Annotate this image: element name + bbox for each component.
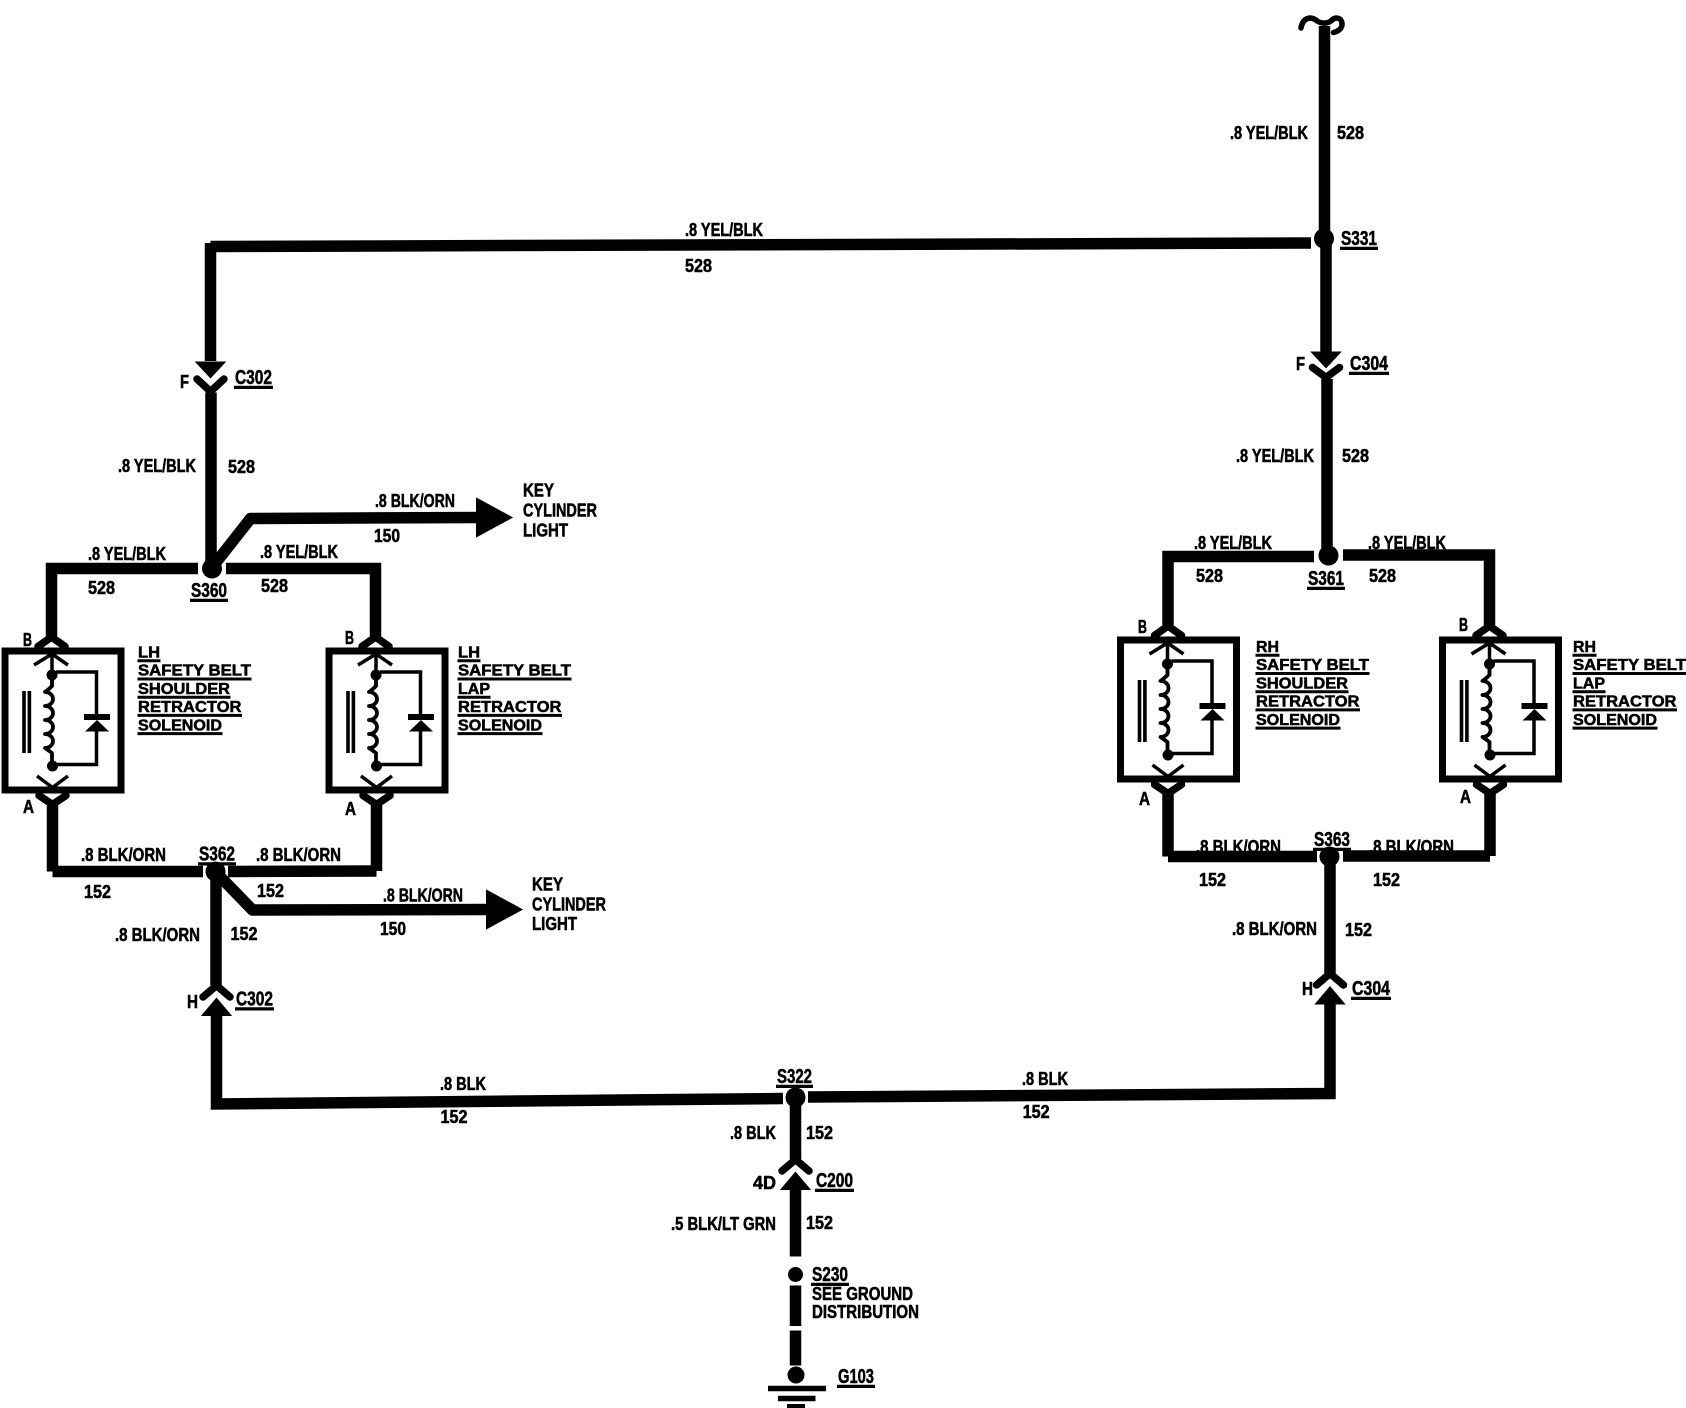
svg-text:SAFETY BELT: SAFETY BELT bbox=[1573, 657, 1686, 674]
splice S361 junction dot bbox=[1319, 546, 1339, 566]
svg-text:S362: S362 bbox=[199, 844, 235, 866]
solenoid LH lap retractor core (two parallel lines) bbox=[348, 691, 353, 753]
svg-text:RETRACTOR: RETRACTOR bbox=[458, 699, 562, 716]
svg-text:C302: C302 bbox=[235, 367, 272, 389]
svg-text:.8 YEL/BLK: .8 YEL/BLK bbox=[1230, 123, 1308, 143]
svg-text:528: 528 bbox=[685, 256, 712, 276]
svg-text:RH: RH bbox=[1573, 639, 1596, 656]
wire 528 drop to connector C302 bbox=[205, 243, 217, 361]
solenoid LH lap retractor solenoid coil winding bbox=[369, 675, 377, 766]
svg-text:.8 BLK/ORN: .8 BLK/ORN bbox=[383, 886, 463, 906]
RH shoulder solenoid pin A wire-end chevron bbox=[1155, 785, 1182, 794]
svg-text:S322: S322 bbox=[777, 1066, 812, 1088]
svg-text:A: A bbox=[23, 797, 34, 817]
svg-text:A: A bbox=[1460, 787, 1471, 807]
svg-text:528: 528 bbox=[1369, 566, 1396, 586]
wire .8 BLK/ORN 152 from S363 down to C304 bbox=[1324, 861, 1336, 973]
svg-text:B: B bbox=[345, 628, 354, 648]
solenoid RH shoulder retractor clamp diode branch wiring bbox=[1172, 661, 1213, 754]
svg-text:528: 528 bbox=[228, 457, 255, 477]
svg-text:SAFETY BELT: SAFETY BELT bbox=[1256, 657, 1369, 674]
svg-text:LH: LH bbox=[458, 645, 480, 662]
svg-text:528: 528 bbox=[88, 578, 115, 598]
solenoid RH shoulder retractor pin B terminal arrow (inside box, thin) bbox=[1150, 643, 1184, 654]
solenoid RH shoulder retractor core (two parallel lines) bbox=[1140, 680, 1145, 742]
solenoid LH lap retractor: component box bbox=[329, 651, 445, 790]
svg-text:SOLENOID: SOLENOID bbox=[1256, 712, 1340, 729]
solenoid LH shoulder retractor internal wire from pin B bbox=[50, 651, 54, 687]
connector C304 cavity H female chevron bbox=[1317, 974, 1344, 986]
svg-text:150: 150 bbox=[374, 526, 400, 546]
svg-text:152: 152 bbox=[441, 1107, 468, 1127]
svg-text:B: B bbox=[1138, 617, 1147, 637]
wire 152 RH lap pin A down bbox=[1484, 792, 1496, 856]
solenoid LH shoulder retractor internal node (bottom junction dot) bbox=[47, 761, 58, 772]
svg-text:S331: S331 bbox=[1341, 228, 1377, 250]
svg-text:CYLINDER: CYLINDER bbox=[532, 895, 606, 915]
wire .8 BLK/ORN 152 (LH shoulder A to S362) bbox=[53, 866, 204, 878]
wire 528 S361 to RH lap solenoid pin B bbox=[1343, 555, 1490, 625]
svg-text:CYLINDER: CYLINDER bbox=[523, 501, 597, 521]
off-page arrow to key cylinder light (upper) bbox=[477, 499, 511, 536]
wire 528 S360 to LH lap solenoid pin B bbox=[226, 569, 376, 637]
svg-text:152: 152 bbox=[1345, 920, 1372, 940]
connector C302 cavity F male arrow (down) bbox=[197, 363, 224, 378]
svg-text:.8 BLK/ORN: .8 BLK/ORN bbox=[115, 925, 200, 945]
svg-text:.8 YEL/BLK: .8 YEL/BLK bbox=[260, 542, 338, 562]
svg-text:.8 BLK/ORN: .8 BLK/ORN bbox=[1196, 837, 1281, 857]
svg-text:152: 152 bbox=[806, 1123, 833, 1143]
svg-text:528: 528 bbox=[261, 576, 288, 596]
RH lap solenoid pin A wire-end chevron bbox=[1477, 785, 1504, 794]
svg-text:152: 152 bbox=[1373, 870, 1400, 890]
LH shoulder solenoid pin A wire-end chevron bbox=[39, 796, 66, 805]
solenoid RH shoulder retractor pin A terminal arrow (inside box, thin) bbox=[1153, 765, 1184, 777]
solenoid LH lap retractor pin B terminal arrow (inside box, thin) bbox=[358, 654, 392, 665]
svg-text:.8 BLK/ORN: .8 BLK/ORN bbox=[256, 845, 341, 865]
solenoid RH lap retractor internal node (top junction dot) bbox=[1484, 659, 1495, 670]
wire .8 YEL/BLK 528 (top vertical feed) bbox=[1319, 26, 1331, 238]
svg-text:528: 528 bbox=[1342, 446, 1369, 466]
solenoid LH shoulder retractor clamp diode cathode bar bbox=[84, 714, 110, 720]
svg-text:.8 YEL/BLK: .8 YEL/BLK bbox=[118, 456, 196, 476]
svg-text:528: 528 bbox=[1196, 566, 1223, 586]
svg-text:SOLENOID: SOLENOID bbox=[458, 717, 542, 734]
svg-text:152: 152 bbox=[257, 881, 284, 901]
branch wire .8 BLK/ORN 150 to key cylinder light (upper) bbox=[214, 518, 481, 566]
solenoid RH shoulder retractor internal wire from pin B bbox=[1166, 640, 1170, 676]
wire 152 LH lap pin A down bbox=[371, 803, 383, 871]
solenoid LH lap retractor clamp diode branch wiring bbox=[380, 672, 421, 765]
connector C302 cavity H female chevron bbox=[203, 986, 230, 998]
LH lap solenoid pin A wire-end chevron bbox=[363, 796, 390, 805]
solenoid LH shoulder retractor clamp diode branch wiring bbox=[56, 672, 97, 765]
svg-text:S360: S360 bbox=[191, 580, 227, 602]
svg-text:H: H bbox=[1302, 979, 1313, 999]
svg-text:.8 YEL/BLK: .8 YEL/BLK bbox=[685, 220, 763, 240]
solenoid LH lap retractor pin A terminal arrow (inside box, thin) bbox=[361, 776, 392, 788]
svg-text:B: B bbox=[23, 630, 32, 650]
svg-text:152: 152 bbox=[1023, 1102, 1050, 1122]
branch wire .8 BLK/ORN 150 to key cylinder light (lower) bbox=[218, 875, 490, 911]
RH lap solenoid pin B wire-end chevron bbox=[1476, 626, 1503, 636]
svg-text:.8 BLK: .8 BLK bbox=[730, 1123, 776, 1143]
svg-text:KEY: KEY bbox=[523, 481, 554, 501]
svg-text:152: 152 bbox=[806, 1213, 833, 1233]
svg-text:.8 BLK/ORN: .8 BLK/ORN bbox=[1369, 837, 1454, 857]
splice S331 junction dot bbox=[1314, 229, 1334, 249]
svg-text:.8 YEL/BLK: .8 YEL/BLK bbox=[1368, 533, 1446, 553]
svg-text:RH: RH bbox=[1256, 639, 1279, 656]
svg-text:152: 152 bbox=[84, 882, 111, 902]
svg-text:SAFETY BELT: SAFETY BELT bbox=[458, 663, 571, 680]
svg-text:LIGHT: LIGHT bbox=[532, 914, 577, 934]
splice S362 junction dot bbox=[206, 862, 226, 882]
wire 152 LH shoulder pin A down bbox=[47, 803, 59, 872]
wire .8 BLK 152 from C302 to S322 bbox=[217, 1013, 784, 1104]
solenoid RH lap retractor pin B terminal arrow (inside box, thin) bbox=[1472, 643, 1506, 654]
svg-text:C304: C304 bbox=[1350, 353, 1389, 375]
svg-text:A: A bbox=[1139, 789, 1150, 809]
svg-text:DISTRIBUTION: DISTRIBUTION bbox=[812, 1302, 919, 1322]
wire .8 YEL/BLK 528 from C302 to S360 bbox=[205, 393, 217, 569]
wire 528 S361 to RH shoulder solenoid pin B bbox=[1168, 557, 1314, 626]
svg-text:150: 150 bbox=[380, 919, 406, 939]
wire 528 S360 to LH shoulder solenoid pin B bbox=[52, 569, 199, 637]
solenoid LH shoulder retractor: component box bbox=[5, 651, 121, 790]
wire 152 RH shoulder pin A down bbox=[1162, 792, 1174, 857]
solenoid RH lap retractor pin A terminal arrow (inside box, thin) bbox=[1475, 765, 1506, 777]
svg-text:.8 BLK/ORN: .8 BLK/ORN bbox=[81, 845, 166, 865]
solenoid RH lap retractor internal wire from pin B bbox=[1488, 640, 1492, 676]
svg-text:.8 BLK: .8 BLK bbox=[1022, 1069, 1068, 1089]
solenoid RH shoulder retractor internal node (top junction dot) bbox=[1162, 659, 1173, 670]
svg-text:C200: C200 bbox=[816, 1170, 853, 1192]
solenoid LH shoulder retractor solenoid coil winding bbox=[45, 675, 53, 766]
svg-text:.8 YEL/BLK: .8 YEL/BLK bbox=[1236, 446, 1314, 466]
solenoid RH lap retractor solenoid coil winding bbox=[1483, 664, 1491, 755]
wire .8 BLK 152 from C304 to S322 bbox=[808, 1002, 1330, 1098]
svg-text:LAP: LAP bbox=[1573, 675, 1605, 692]
svg-text:SEE GROUND: SEE GROUND bbox=[812, 1284, 913, 1304]
solenoid RH shoulder retractor clamp diode triangle bbox=[1201, 709, 1225, 721]
wire-break symbol at top of circuit 528 feed bbox=[1301, 18, 1342, 32]
solenoid RH shoulder retractor: component box bbox=[1121, 640, 1237, 779]
connector C302 cavity H male arrow (up) bbox=[203, 999, 230, 1015]
RH shoulder solenoid pin B wire-end chevron bbox=[1155, 626, 1182, 636]
wire .5 BLK/LT GRN 152 from C200 to S230 bbox=[790, 1188, 802, 1257]
splice S230 junction dot bbox=[788, 1267, 803, 1282]
svg-text:SHOULDER: SHOULDER bbox=[138, 681, 230, 698]
solenoid LH lap retractor clamp diode triangle bbox=[409, 720, 433, 732]
svg-text:S230: S230 bbox=[812, 1264, 848, 1286]
svg-text:RETRACTOR: RETRACTOR bbox=[138, 699, 242, 716]
wire .8 BLK/ORN 152 (LH lap A to S362) bbox=[228, 865, 377, 877]
svg-text:F: F bbox=[180, 372, 189, 392]
wire 528 drop to connector C304 bbox=[1320, 243, 1332, 352]
connector C200 cavity 4D male arrow (up) bbox=[782, 1173, 809, 1189]
LH lap solenoid pin B wire-end chevron bbox=[362, 637, 389, 647]
splice S322 junction dot bbox=[786, 1088, 806, 1108]
svg-text:.8 YEL/BLK: .8 YEL/BLK bbox=[88, 544, 166, 564]
solenoid RH lap retractor clamp diode triangle bbox=[1523, 709, 1547, 721]
solenoid LH lap retractor internal node (top junction dot) bbox=[371, 670, 382, 681]
svg-text:LAP: LAP bbox=[458, 681, 490, 698]
solenoid LH lap retractor internal node (bottom junction dot) bbox=[371, 761, 382, 772]
svg-text:152: 152 bbox=[1199, 870, 1226, 890]
svg-text:A: A bbox=[345, 799, 356, 819]
solenoid RH lap retractor clamp diode cathode bar bbox=[1522, 703, 1548, 709]
svg-text:.8 YEL/BLK: .8 YEL/BLK bbox=[1194, 533, 1272, 553]
solenoid RH shoulder retractor clamp diode cathode bar bbox=[1200, 703, 1226, 709]
solenoid LH shoulder retractor clamp diode triangle bbox=[85, 720, 109, 732]
solenoid RH lap retractor core (two parallel lines) bbox=[1462, 680, 1467, 742]
svg-text:KEY: KEY bbox=[532, 875, 563, 895]
svg-text:SOLENOID: SOLENOID bbox=[1573, 712, 1657, 729]
svg-text:SAFETY BELT: SAFETY BELT bbox=[138, 663, 251, 680]
svg-text:.5 BLK/LT GRN: .5 BLK/LT GRN bbox=[671, 1214, 776, 1234]
svg-text:LIGHT: LIGHT bbox=[523, 521, 568, 541]
svg-text:SOLENOID: SOLENOID bbox=[138, 717, 222, 734]
svg-text:C304: C304 bbox=[1352, 978, 1391, 1000]
connector C302 cavity F female chevron bbox=[197, 379, 224, 392]
svg-text:152: 152 bbox=[231, 924, 258, 944]
svg-text:H: H bbox=[187, 992, 198, 1012]
wire .8 BLK/ORN 152 from S362 down to C302 bbox=[210, 876, 222, 985]
LH shoulder solenoid pin B wire-end chevron bbox=[38, 637, 65, 647]
svg-text:SHOULDER: SHOULDER bbox=[1256, 675, 1348, 692]
solenoid LH shoulder retractor internal node (top junction dot) bbox=[47, 670, 58, 681]
solenoid LH lap retractor internal wire from pin B bbox=[374, 651, 378, 687]
splice S360 junction dot bbox=[202, 559, 222, 579]
svg-text:528: 528 bbox=[1337, 123, 1364, 143]
solenoid RH lap retractor clamp diode branch wiring bbox=[1494, 661, 1535, 754]
solenoid LH shoulder retractor pin A terminal arrow (inside box, thin) bbox=[37, 776, 68, 788]
connector C304 cavity H male arrow (up) bbox=[1317, 988, 1344, 1004]
svg-text:RETRACTOR: RETRACTOR bbox=[1573, 694, 1677, 711]
svg-text:B: B bbox=[1459, 615, 1468, 635]
svg-text:F: F bbox=[1296, 354, 1305, 374]
solenoid RH shoulder retractor solenoid coil winding bbox=[1161, 664, 1169, 755]
solenoid RH shoulder retractor internal node (bottom junction dot) bbox=[1163, 750, 1174, 761]
solenoid LH shoulder retractor pin B terminal arrow (inside box, thin) bbox=[34, 654, 68, 665]
connector C304 cavity F male arrow (down) bbox=[1313, 353, 1340, 368]
svg-text:C302: C302 bbox=[236, 989, 273, 1011]
splice S363 junction dot bbox=[1320, 847, 1340, 867]
wire .8 YEL/BLK 528 (long top horizontal) bbox=[211, 243, 1312, 247]
dashed wire from S230 to ground G103 bbox=[790, 1286, 802, 1366]
wire .8 BLK/ORN 152 (RH lap A to S363) bbox=[1343, 850, 1490, 862]
svg-text:.8 BLK: .8 BLK bbox=[440, 1074, 486, 1094]
svg-text:RETRACTOR: RETRACTOR bbox=[1256, 694, 1360, 711]
solenoid RH lap retractor: component box bbox=[1443, 640, 1559, 779]
solenoid LH shoulder retractor core (two parallel lines) bbox=[24, 691, 29, 753]
svg-text:4D: 4D bbox=[753, 1173, 776, 1193]
svg-text:.8 BLK/ORN: .8 BLK/ORN bbox=[375, 491, 455, 511]
wire .8 BLK 152 from S322 down to C200 bbox=[790, 1103, 802, 1159]
solenoid RH lap retractor internal node (bottom junction dot) bbox=[1485, 750, 1496, 761]
connector C200 cavity 4D female chevron bbox=[782, 1160, 809, 1172]
svg-text:LH: LH bbox=[138, 645, 160, 662]
ground G103 symbol bbox=[788, 1367, 805, 1384]
wire .8 YEL/BLK 528 from C304 to S361 bbox=[1321, 379, 1333, 556]
off-page arrow to key cylinder light (lower) bbox=[487, 891, 521, 928]
svg-text:.8 BLK/ORN: .8 BLK/ORN bbox=[1232, 919, 1317, 939]
solenoid LH lap retractor clamp diode cathode bar bbox=[408, 714, 434, 720]
svg-text:S361: S361 bbox=[1308, 568, 1344, 590]
wire .8 BLK/ORN 152 (RH shoulder A to S363) bbox=[1168, 851, 1317, 863]
connector C304 cavity F female chevron bbox=[1313, 368, 1340, 378]
svg-text:G103: G103 bbox=[838, 1366, 874, 1388]
svg-text:S363: S363 bbox=[1314, 829, 1350, 851]
